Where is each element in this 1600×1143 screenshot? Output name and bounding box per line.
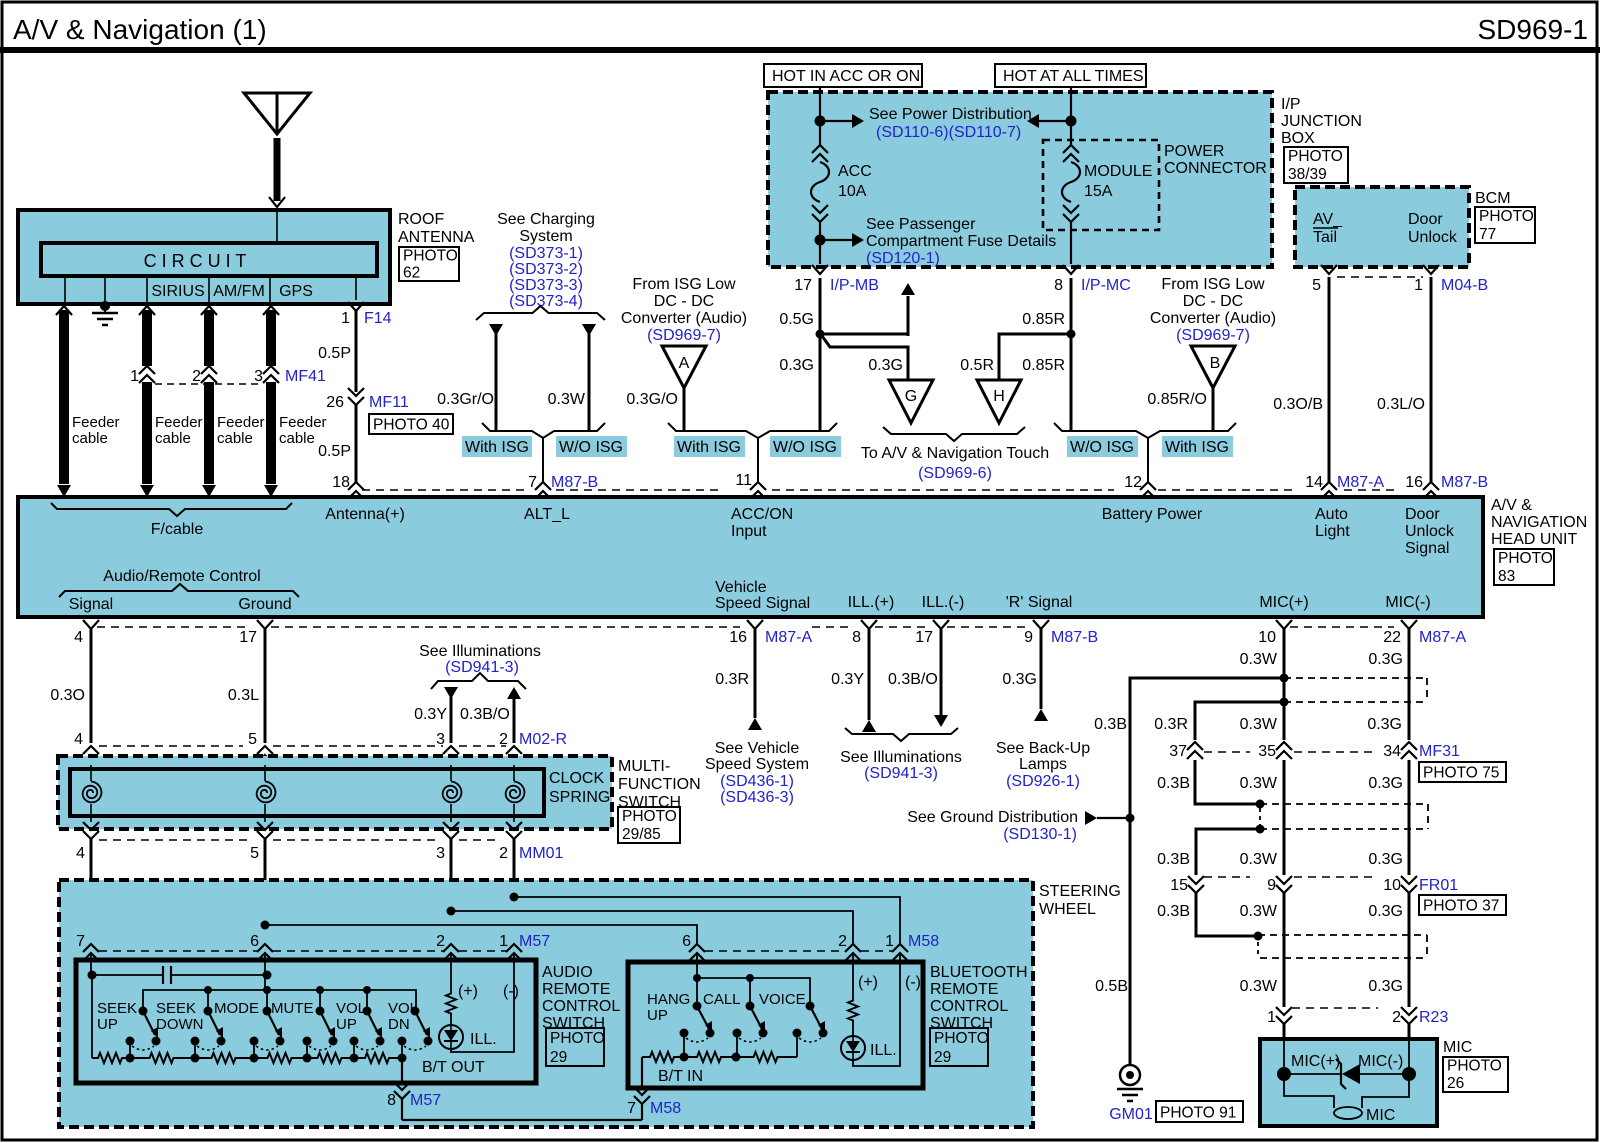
svg-text:ROOF: ROOF [398,211,444,228]
label mode [214,1000,259,1017]
svg-text:R23: R23 [1419,1009,1448,1026]
shield box 3 [1254,932,1428,959]
svg-text:7: 7 [627,1100,636,1117]
branch dot pin6 wire [261,921,270,930]
svg-text:PHOTO 40: PHOTO 40 [373,417,450,434]
svg-text:Feeder: Feeder [72,414,120,431]
svg-text:cable: cable [279,430,315,447]
svg-text:0.5B: 0.5B [1095,978,1128,995]
svg-text:12: 12 [1124,474,1142,491]
svg-text:15A: 15A [1084,183,1113,200]
svg-text:M04-B: M04-B [1441,277,1488,294]
connector MM01 dashed line [99,839,500,841]
svg-text:AM/FM: AM/FM [213,283,265,300]
label GM01 [1109,1106,1153,1123]
svg-text:0.3B: 0.3B [1157,775,1190,792]
svg-text:Converter (Audio): Converter (Audio) [1150,310,1276,327]
svg-text:4: 4 [74,731,83,748]
svg-text:See Ground Distribution: See Ground Distribution [907,809,1078,826]
audio remote control switch box [76,960,536,1083]
svg-text:F/cable: F/cable [151,521,204,538]
svg-text:MODE: MODE [214,1000,259,1017]
resistor ladder rail [92,1053,407,1063]
connector M87 dashed line bottom [97,626,1394,628]
wire antenna plus lead [355,276,357,300]
wire 0.3B fr01 to shield3 [1157,893,1258,936]
svg-text:(SD969-7): (SD969-7) [647,327,721,344]
arrow see ground distribution [1085,811,1130,825]
svg-text:A: A [679,355,690,372]
arrow see passenger fuse details [820,233,864,247]
svg-text:1: 1 [1414,277,1423,294]
steering wheel box [59,880,1033,1127]
label to AV navigation touch [861,445,1049,482]
junction dot acc lower [815,235,826,246]
svg-text:I/P-MB: I/P-MB [830,277,879,294]
connector FR01 chevrons [1188,876,1417,893]
svg-text:ANTENNA: ANTENNA [398,229,475,246]
wire sirius lead [64,276,66,304]
head unit pin 4 signal [74,620,99,646]
label I/P JUNCTION BOX [1281,96,1362,147]
svg-text:0.3W: 0.3W [1240,716,1278,733]
label MULTI-FUNCTION SWITCH [618,758,701,811]
svg-text:0.3W: 0.3W [1240,651,1278,668]
svg-text:1: 1 [499,933,508,950]
svg-text:Input: Input [731,523,767,540]
bluetooth remote control switch box [628,962,923,1088]
svg-text:17: 17 [915,629,933,646]
svg-text:G: G [905,388,917,405]
wire mic- upper [1367,629,1409,740]
label POWER CONNECTOR [1164,143,1267,177]
svg-text:REMOTE: REMOTE [542,981,610,998]
svg-text:Feeder: Feeder [155,414,203,431]
svg-text:From ISG Low: From ISG Low [1161,276,1265,293]
wire 0.85R/O from B [1147,388,1213,431]
label seek up [97,1000,137,1033]
junction dot batt [1066,116,1077,127]
wire I/P-MC 0.85R [1022,278,1071,431]
svg-text:0.3G: 0.3G [1368,651,1403,668]
svg-text:UP: UP [647,1007,668,1024]
svg-text:VOL: VOL [388,1000,418,1017]
svg-text:0.3G: 0.3G [779,357,814,374]
svg-text:B/T IN: B/T IN [658,1068,703,1085]
title separator line [0,47,1600,53]
wire 0.3Gr/O with ISG [437,324,503,431]
junction dot mic+ shield1 bottom [1280,698,1289,707]
labels M57 pins [76,933,550,950]
svg-text:1: 1 [885,933,894,950]
svg-text:0.85R: 0.85R [1022,357,1065,374]
svg-text:16: 16 [729,629,747,646]
svg-text:(+): (+) [858,974,878,991]
svg-text:9: 9 [1267,877,1276,894]
svg-text:Compartment Fuse Details: Compartment Fuse Details [866,233,1056,250]
svg-text:0.3R: 0.3R [715,671,749,688]
svg-text:A/V & Navigation (1): A/V & Navigation (1) [13,14,267,45]
junction dot acc branch [816,330,825,339]
bt ill resistor [848,953,878,1036]
power connector box [1043,140,1159,230]
svg-text:STEERING: STEERING [1039,883,1121,900]
labels FR01 pins [1170,877,1458,894]
svg-text:M87-A: M87-A [765,629,812,646]
svg-text:0.3G: 0.3G [1002,671,1037,688]
clock spring coil 3 [443,765,462,822]
connector R23 dashed line [1292,1007,1378,1009]
svg-text:PHOTO: PHOTO [1447,1058,1502,1075]
svg-text:ILL.: ILL. [870,1042,897,1059]
svg-text:Tail: Tail [1313,229,1337,246]
label see vehicle speed system [705,740,809,806]
branch arrow up to navigation [820,283,915,336]
svg-text:0.3L/O: 0.3L/O [1377,396,1425,413]
label vol dn [388,1000,418,1033]
branch dot pin1 wire [510,893,519,902]
svg-text:6: 6 [682,933,691,950]
svg-text:0.3B: 0.3B [1094,716,1127,733]
brace see illuminations upper [431,673,526,689]
switch mode [250,1007,285,1059]
connector M04-B dashed link [1337,276,1423,278]
arrow see power distribution left [820,114,864,128]
wire 0.3Y ill+ [831,629,876,732]
svg-text:10: 10 [1383,877,1401,894]
svg-text:I/P-MC: I/P-MC [1081,277,1131,294]
head unit pin 10 mic+ [1258,620,1292,646]
photo 91 box [1156,1101,1243,1122]
svg-text:34: 34 [1383,743,1401,760]
wire 0.3W fr01 to r23 [1240,893,1284,1007]
svg-text:ILL.(-): ILL.(-) [922,594,965,611]
svg-text:HANG: HANG [647,991,690,1008]
switch hang up [680,1002,715,1058]
triangle H [977,380,1021,423]
svg-text:Unlock: Unlock [1408,229,1458,246]
svg-text:Lamps: Lamps [1019,756,1067,773]
multi-function switch box [58,756,612,829]
wire 0.5P antenna lower [318,405,356,482]
svg-text:CLOCK: CLOCK [549,770,604,787]
ground symbol GM01 [1117,1065,1143,1101]
branch to G triangle [822,336,908,380]
svg-text:0.3G: 0.3G [1367,716,1402,733]
labels SIRIUS AM/FM GPS [151,283,313,300]
svg-text:M87-A: M87-A [1419,629,1466,646]
fuse MODULE 15A [1062,145,1152,222]
svg-text:DOWN: DOWN [156,1016,204,1033]
svg-text:M58: M58 [908,933,939,950]
svg-text:0.3L: 0.3L [228,687,259,704]
wire H to batt [960,334,1070,380]
svg-text:PHOTO: PHOTO [403,247,458,264]
wire mic+ upper [1240,629,1284,740]
bt ill LED [841,1036,897,1060]
connector F14 pin 1 [341,302,392,327]
svg-text:(-): (-) [503,983,519,1000]
svg-text:BCM: BCM [1475,190,1511,207]
svg-text:Feeder: Feeder [279,414,327,431]
head unit pin 17 ill- [915,620,949,646]
svg-text:Door: Door [1408,211,1443,228]
wire acc to exit [819,222,821,264]
svg-text:26: 26 [326,394,344,411]
svg-text:CALL: CALL [703,991,741,1008]
head unit pin 17 ground [239,620,273,646]
svg-text:5: 5 [250,845,259,862]
svg-text:(+): (+) [458,983,478,1000]
svg-text:DC - DC: DC - DC [654,293,714,310]
wire circuit ground lead [104,276,106,302]
svg-text:MF31: MF31 [1419,743,1460,760]
label B/T OUT [422,1059,485,1076]
brace f/cable [51,503,292,538]
wire B/T OUT to pin 8 [394,1058,410,1120]
svg-text:MIC: MIC [1366,1107,1395,1124]
label MIC outside [1443,1039,1472,1056]
label vol up [336,1000,366,1033]
wire pin6 entry [264,953,266,990]
svg-text:(SD436-1): (SD436-1) [720,773,794,790]
svg-text:10: 10 [1258,629,1276,646]
svg-text:VOICE: VOICE [759,991,806,1008]
svg-text:0.3W: 0.3W [1240,903,1278,920]
antenna mast symbol [244,93,310,207]
svg-text:AUDIO: AUDIO [542,964,593,981]
svg-text:0.3Y: 0.3Y [831,671,864,688]
svg-text:HOT AT ALL TIMES: HOT AT ALL TIMES [1003,68,1144,85]
photo 37 box [1419,895,1506,915]
label see passenger compartment fuse details [866,216,1056,267]
label ROOF ANTENNA [398,211,475,246]
wire mic- into mic box [1408,1024,1411,1039]
switch call [733,1002,768,1058]
svg-text:0.3Y: 0.3Y [414,706,447,723]
wire 0.3B/O to clock spring [460,687,521,748]
switch voice [793,1002,828,1058]
svg-text:See Illuminations: See Illuminations [419,643,541,660]
wire 0.3B/O ill- [888,629,948,727]
svg-text:0.3O: 0.3O [50,687,85,704]
wire 0.3O/B auto light [1273,277,1329,482]
connector M58 chevrons [689,944,908,961]
wire module to exit [1070,222,1072,264]
label from ISG low B [1150,276,1276,344]
svg-text:(SD373-2): (SD373-2) [509,261,583,278]
branch wire to bluetooth pin 2 [451,911,853,944]
labels MM01 pins [76,845,563,862]
label with ISG acc [674,436,745,457]
svg-text:M57: M57 [410,1092,441,1109]
label B/T IN [658,1068,703,1085]
svg-text:0.3B/O: 0.3B/O [460,706,510,723]
svg-text:M87-B: M87-B [1051,629,1098,646]
mic- internal lead [1402,1039,1416,1081]
junction dot acc [815,116,826,127]
svg-text:MF41: MF41 [285,368,326,385]
svg-text:GPS: GPS [279,283,313,300]
svg-text:MIC(+): MIC(+) [1259,594,1308,611]
svg-text:SIRIUS: SIRIUS [151,283,204,300]
svg-text:PHOTO: PHOTO [1479,208,1534,225]
svg-text:18: 18 [332,474,350,491]
label w/o ISG alt [556,436,627,457]
svg-text:HEAD UNIT: HEAD UNIT [1491,531,1577,548]
labels pins 1 2 3 MF41 [130,368,326,385]
junction dot mic+ shield1 top [1280,674,1289,683]
svg-text:Speed Signal: Speed Signal [715,595,810,612]
svg-text:26: 26 [1447,1075,1464,1092]
connector M57 dashed line [99,950,506,952]
head unit pin 8 ill+ [852,620,877,646]
svg-text:0.3G: 0.3G [1368,978,1403,995]
svg-text:See Illuminations: See Illuminations [840,749,962,766]
svg-text:11: 11 [735,472,752,489]
svg-text:PHOTO 75: PHOTO 75 [1423,765,1499,782]
feeder cable 3 [201,306,217,497]
wire pin7 down to rail [91,975,93,1058]
svg-text:SEEK: SEEK [156,1000,196,1017]
label AUDIO REMOTE CONTROL SWITCH [542,964,620,1032]
svg-text:AV_: AV_ [1313,211,1343,228]
labels M57 pin 8 [387,1092,441,1109]
wire 0.3L ground [228,629,265,748]
label mute [271,1000,314,1017]
svg-text:Audio/Remote Control: Audio/Remote Control [103,568,260,585]
svg-text:1: 1 [1267,1009,1276,1026]
svg-text:(SD373-1): (SD373-1) [509,245,583,262]
mic transducer [1284,1074,1409,1124]
svg-text:BLUETOOTH: BLUETOOTH [930,964,1028,981]
hot at all times box [995,64,1146,87]
svg-text:(SD130-1): (SD130-1) [1003,826,1077,843]
roof antenna box [18,210,390,304]
svg-text:(SD969-7): (SD969-7) [1176,327,1250,344]
svg-text:6: 6 [250,933,259,950]
wire gps lead [269,276,271,304]
svg-text:(SD969-6): (SD969-6) [918,465,992,482]
svg-text:16: 16 [1405,474,1423,491]
svg-text:ACC/ON: ACC/ON [731,506,793,523]
label see ground distribution [907,809,1078,843]
svg-text:UP: UP [336,1016,357,1033]
audio ill resistor [446,953,478,1025]
photo 38/39 box [1284,147,1348,183]
svg-text:See Passenger: See Passenger [866,216,976,233]
svg-text:Signal: Signal [1405,540,1449,557]
connector MF31 dashed line [1204,751,1374,753]
label BCM [1475,190,1511,207]
connector M02-R chevrons [83,746,522,763]
svg-text:8: 8 [387,1092,396,1109]
svg-text:ILL.: ILL. [470,1031,497,1048]
svg-text:VOL: VOL [336,1000,366,1017]
label Door Unlock [1408,211,1458,246]
svg-text:Converter (Audio): Converter (Audio) [621,310,747,327]
svg-text:DC - DC: DC - DC [1183,293,1243,310]
svg-text:ACC: ACC [838,163,872,180]
svg-text:0.3G: 0.3G [1368,903,1403,920]
label see illuminations lower [840,749,962,782]
svg-text:0.3B/O: 0.3B/O [888,671,938,688]
photo 40 box [369,414,453,434]
connector M87 dashed line top [362,489,1400,491]
svg-text:17: 17 [239,629,257,646]
mic+ internal lead [1277,1039,1291,1081]
switch seek up [126,1007,161,1059]
option bracket alt_l [482,423,605,482]
svg-text:M57: M57 [519,933,550,950]
clock spring box [70,769,544,816]
capacitor link pin7 pin6 [88,966,272,984]
svg-text:'R' Signal: 'R' Signal [1006,594,1073,611]
svg-text:8: 8 [852,629,861,646]
svg-text:POWER: POWER [1164,143,1224,160]
wire hot acc feed [819,87,821,145]
svg-text:I/P: I/P [1281,96,1301,113]
svg-text:See Back-Up: See Back-Up [996,740,1090,757]
svg-text:0.3O/B: 0.3O/B [1273,396,1323,413]
roof antenna CIRCUIT box [41,243,377,276]
wires clock spring to steering wheel [91,839,514,944]
svg-text:MUTE: MUTE [271,1000,314,1017]
wire pin7 entry [90,953,92,975]
svg-text:5: 5 [248,731,257,748]
connector M04-B pin 5 [1312,265,1337,294]
svg-text:With ISG: With ISG [1165,439,1229,456]
label hang up [647,991,690,1024]
svg-text:H: H [993,388,1005,405]
head unit pin 12 battery [1124,474,1156,499]
connector MM01 chevrons [83,822,522,839]
svg-text:CONTROL: CONTROL [542,998,620,1015]
wire 0.3G fr01 to r23 [1368,893,1409,1007]
wire 0.3Y to clock spring [414,687,458,748]
svg-text:MODULE: MODULE [1084,163,1152,180]
wire 0.3W mf31 to fr01 [1240,760,1284,875]
svg-text:ALT_L: ALT_L [524,506,570,523]
head unit pin 7 ALT_L [528,474,598,499]
connector M58 dashed line [705,950,892,952]
svg-text:77: 77 [1479,226,1496,243]
wire bt out to bt in link [402,1119,642,1121]
head unit pin 18 antenna [332,474,364,499]
wire B/T IN to pin 7 [634,1057,650,1120]
labels feeder cable [72,414,327,447]
svg-text:(SD120-1): (SD120-1) [866,250,940,267]
svg-text:PHOTO 37: PHOTO 37 [1423,898,1499,915]
clock spring coil 1 [83,765,102,822]
svg-text:Unlock: Unlock [1405,523,1455,540]
title A/V & Navigation (1) [13,14,267,45]
svg-text:3: 3 [436,845,445,862]
svg-text:FR01: FR01 [1419,877,1458,894]
feeder cable 4 [263,306,279,497]
wire 0.3B ground branch [1094,678,1284,1065]
switch mute [303,1007,338,1059]
svg-text:F14: F14 [364,310,392,327]
title SD969-1 [1477,14,1588,45]
svg-text:3: 3 [436,731,445,748]
branch wire to bluetooth pin 6 [265,925,697,944]
photo 29 box audio [546,1028,605,1066]
svg-text:0.5P: 0.5P [318,345,351,362]
svg-text:0.85R: 0.85R [1022,311,1065,328]
photo 26 box [1443,1057,1508,1092]
photo 83 box [1494,549,1554,585]
